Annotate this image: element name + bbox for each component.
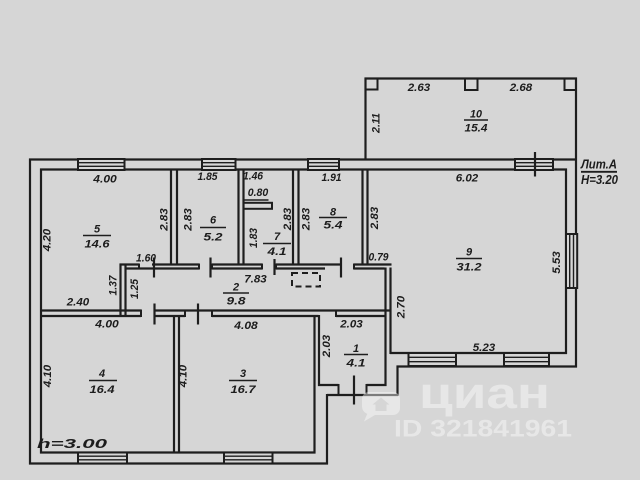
svg-text:8: 8 (330, 206, 337, 218)
svg-text:2.83: 2.83 (300, 208, 312, 232)
wall top outer (29, 158, 577, 160)
svg-text:5: 5 (94, 223, 101, 235)
wall bottom inner (40, 451, 316, 453)
wall corridor bottom upper line (40, 309, 141, 311)
window W3 room8 top (308, 159, 339, 170)
svg-text:Н=3.20: Н=3.20 (581, 173, 618, 187)
jamb door room1 top (335, 310, 337, 318)
svg-text:9.8: 9.8 (227, 295, 247, 307)
svg-text:2.11: 2.11 (370, 113, 382, 134)
svg-text:16.4: 16.4 (90, 384, 115, 396)
svg-text:0.79: 0.79 (369, 251, 390, 263)
wall room10 top (365, 77, 578, 79)
jamb door room3 right (211, 310, 213, 318)
wall step right vertical (396, 366, 398, 397)
wall room7 stub (244, 203, 273, 209)
tick room1 bottom door (353, 376, 355, 405)
window W7 room9 bottom right (504, 353, 549, 366)
svg-text:15.4: 15.4 (465, 122, 488, 134)
wall room8/9 left line (361, 169, 363, 265)
wall corridor top upper line (120, 263, 140, 265)
window W5 room9 right (566, 234, 577, 288)
tick corridor top door room7 (273, 259, 275, 275)
svg-text:0.80: 0.80 (248, 187, 269, 199)
wall room5/6 right line (176, 169, 178, 265)
svg-text:2.03: 2.03 (339, 318, 363, 330)
wall room6/7 right line (242, 169, 244, 265)
wall room9 bottom outer (397, 365, 578, 367)
jamb door room7 left (261, 264, 263, 270)
svg-text:3: 3 (240, 368, 246, 380)
jamb door room6 left (198, 264, 200, 270)
wall top inner (40, 168, 567, 170)
tick corridor top door room8 (340, 258, 342, 278)
svg-text:ID 321841961: ID 321841961 (394, 416, 572, 443)
wall room3/4 left line (173, 315, 175, 454)
wall room5/6 left line (170, 169, 172, 265)
svg-text:1.46: 1.46 (243, 170, 264, 182)
svg-text:7: 7 (274, 231, 281, 243)
room 3 underline (229, 380, 257, 382)
svg-text:2.83: 2.83 (182, 208, 194, 232)
svg-text:1.83: 1.83 (248, 228, 260, 248)
window W4 room9 top (515, 159, 553, 170)
wall room7/8 right line (297, 169, 299, 265)
svg-text:2: 2 (232, 281, 239, 293)
wall room6/7 left line (237, 169, 239, 265)
svg-text:4.00: 4.00 (92, 173, 118, 185)
jamb room1 door left (338, 384, 340, 396)
svg-text:4: 4 (98, 368, 105, 380)
svg-text:1.37: 1.37 (107, 275, 119, 296)
wall room3 right line (313, 315, 315, 454)
room 7 underline (263, 243, 291, 245)
svg-text:14.6: 14.6 (85, 238, 111, 250)
tick corridor bottom door room3 (197, 304, 199, 325)
tick top wall under room10 (534, 152, 536, 177)
label Lit.A underline (581, 171, 617, 173)
wall left inner (40, 169, 42, 454)
wall room10 left (364, 78, 366, 160)
wall room9 left a (room1 right) (384, 268, 386, 387)
jamb door room6 right (211, 264, 213, 270)
svg-text:4.10: 4.10 (177, 364, 189, 388)
room 1 underline (344, 354, 368, 356)
window W2 room6 top (202, 159, 236, 170)
wall corridor left outer line (119, 264, 121, 317)
svg-text:2.03: 2.03 (321, 335, 333, 359)
jamb door room5 (138, 264, 140, 270)
svg-text:16.7: 16.7 (231, 384, 257, 396)
svg-text:4.1: 4.1 (345, 357, 365, 369)
svg-text:4.10: 4.10 (42, 364, 54, 388)
svg-text:2.83: 2.83 (282, 208, 294, 232)
svg-text:5.4: 5.4 (324, 219, 343, 231)
pilaster room10 top-left (366, 79, 378, 90)
pilaster room10 top-middle (465, 79, 478, 91)
wall room1 bottom lower line (327, 394, 398, 396)
svg-text:h=3.00: h=3.00 (37, 437, 107, 451)
svg-text:1: 1 (353, 343, 359, 355)
wall corridor top lower line (125, 267, 200, 269)
wall room9 bottom inner (390, 352, 567, 354)
wall step left vertical (326, 394, 328, 465)
svg-text:6: 6 (210, 214, 217, 226)
tick corridor top door room5 (153, 258, 155, 278)
svg-text:4.1: 4.1 (266, 246, 286, 258)
wall room1 left line (318, 315, 320, 386)
room 4 underline (89, 380, 117, 382)
svg-text:9: 9 (466, 246, 473, 258)
wall corridor left inner line (124, 264, 126, 317)
room 6 underline (200, 227, 226, 229)
svg-text:5.2: 5.2 (204, 231, 223, 243)
window W9 room3 bottom (224, 453, 273, 464)
wall room9 left b (389, 268, 391, 355)
wall right inner (565, 169, 567, 355)
label 0.80 underline (245, 199, 269, 201)
svg-text:1.25: 1.25 (129, 278, 141, 299)
wall room8/9 right line (366, 169, 368, 265)
svg-text:7.83: 7.83 (244, 273, 267, 285)
wall bottom outer (29, 462, 328, 464)
svg-text:2.83: 2.83 (158, 208, 170, 232)
window W1 room5 top (78, 159, 125, 170)
svg-text:1.60: 1.60 (136, 252, 157, 264)
svg-text:Лит.А: Лит.А (580, 157, 617, 171)
svg-text:2.63: 2.63 (407, 82, 431, 94)
room 9 underline (456, 258, 482, 260)
svg-text:2.40: 2.40 (66, 296, 90, 308)
svg-text:2.83: 2.83 (369, 207, 381, 231)
svg-text:1.91: 1.91 (322, 172, 342, 184)
svg-text:5.53: 5.53 (551, 251, 563, 274)
svg-text:31.2: 31.2 (457, 261, 482, 273)
wall room7/8 left line (292, 169, 294, 265)
room 10 underline (464, 119, 488, 121)
svg-text:4.08: 4.08 (233, 320, 259, 332)
svg-text:1.85: 1.85 (198, 171, 219, 183)
svg-text:2.70: 2.70 (395, 295, 407, 319)
wall right outer (room10 right + main right) (575, 78, 577, 368)
svg-text:6.02: 6.02 (456, 172, 479, 184)
jamb door room4 left (140, 310, 142, 318)
tick corridor bottom door room4 (153, 304, 155, 325)
svg-text:циан: циан (419, 369, 550, 418)
tick corridor top door room6 (209, 258, 211, 278)
room 5 underline (83, 235, 111, 237)
wall room1 bottom upper line (318, 384, 339, 386)
wall left outer (29, 159, 31, 465)
wall corridor bottom lower line (40, 315, 141, 317)
svg-text:5.23: 5.23 (473, 342, 496, 354)
svg-text:10: 10 (470, 108, 483, 120)
room 2 underline (223, 292, 249, 294)
window W6 room9 bottom left (409, 353, 457, 366)
watermark cian logo group (362, 369, 572, 443)
pilaster room10 top-right (565, 79, 577, 91)
jamb door room3 left (184, 310, 186, 318)
room 8 underline (319, 217, 347, 219)
svg-text:2.68: 2.68 (509, 82, 533, 94)
jamb room1 door right (366, 384, 368, 396)
dashed duct box (292, 273, 320, 287)
svg-text:4.00: 4.00 (94, 318, 120, 330)
window W8 room4 bottom (78, 453, 127, 464)
jamb door room7 right (275, 264, 277, 270)
svg-text:4.20: 4.20 (41, 228, 53, 252)
jamb door room8 right (353, 264, 355, 270)
watermark icon bubble (362, 392, 400, 422)
wall room3/4 right line (178, 315, 180, 454)
